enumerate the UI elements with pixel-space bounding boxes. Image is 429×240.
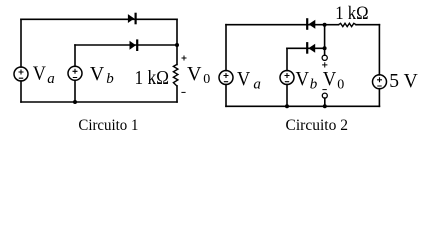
svg-text:Circuito 1: Circuito 1 (78, 117, 138, 134)
svg-text:V: V (90, 63, 105, 85)
svg-text:V: V (323, 68, 337, 90)
svg-text:V: V (187, 63, 202, 85)
svg-text:0: 0 (337, 77, 344, 92)
svg-text:5 V: 5 V (389, 70, 418, 92)
svg-text:a: a (47, 71, 55, 87)
svg-text:V: V (296, 68, 310, 90)
svg-text:b: b (310, 76, 318, 92)
svg-text:0: 0 (203, 72, 210, 87)
svg-text:V: V (237, 68, 251, 90)
svg-text:1 kΩ: 1 kΩ (335, 3, 368, 24)
svg-text:Circuito 2: Circuito 2 (286, 117, 349, 134)
svg-text:a: a (253, 76, 261, 92)
svg-text:b: b (106, 71, 114, 87)
svg-text:1 kΩ: 1 kΩ (135, 67, 170, 89)
svg-text:V: V (33, 63, 47, 85)
